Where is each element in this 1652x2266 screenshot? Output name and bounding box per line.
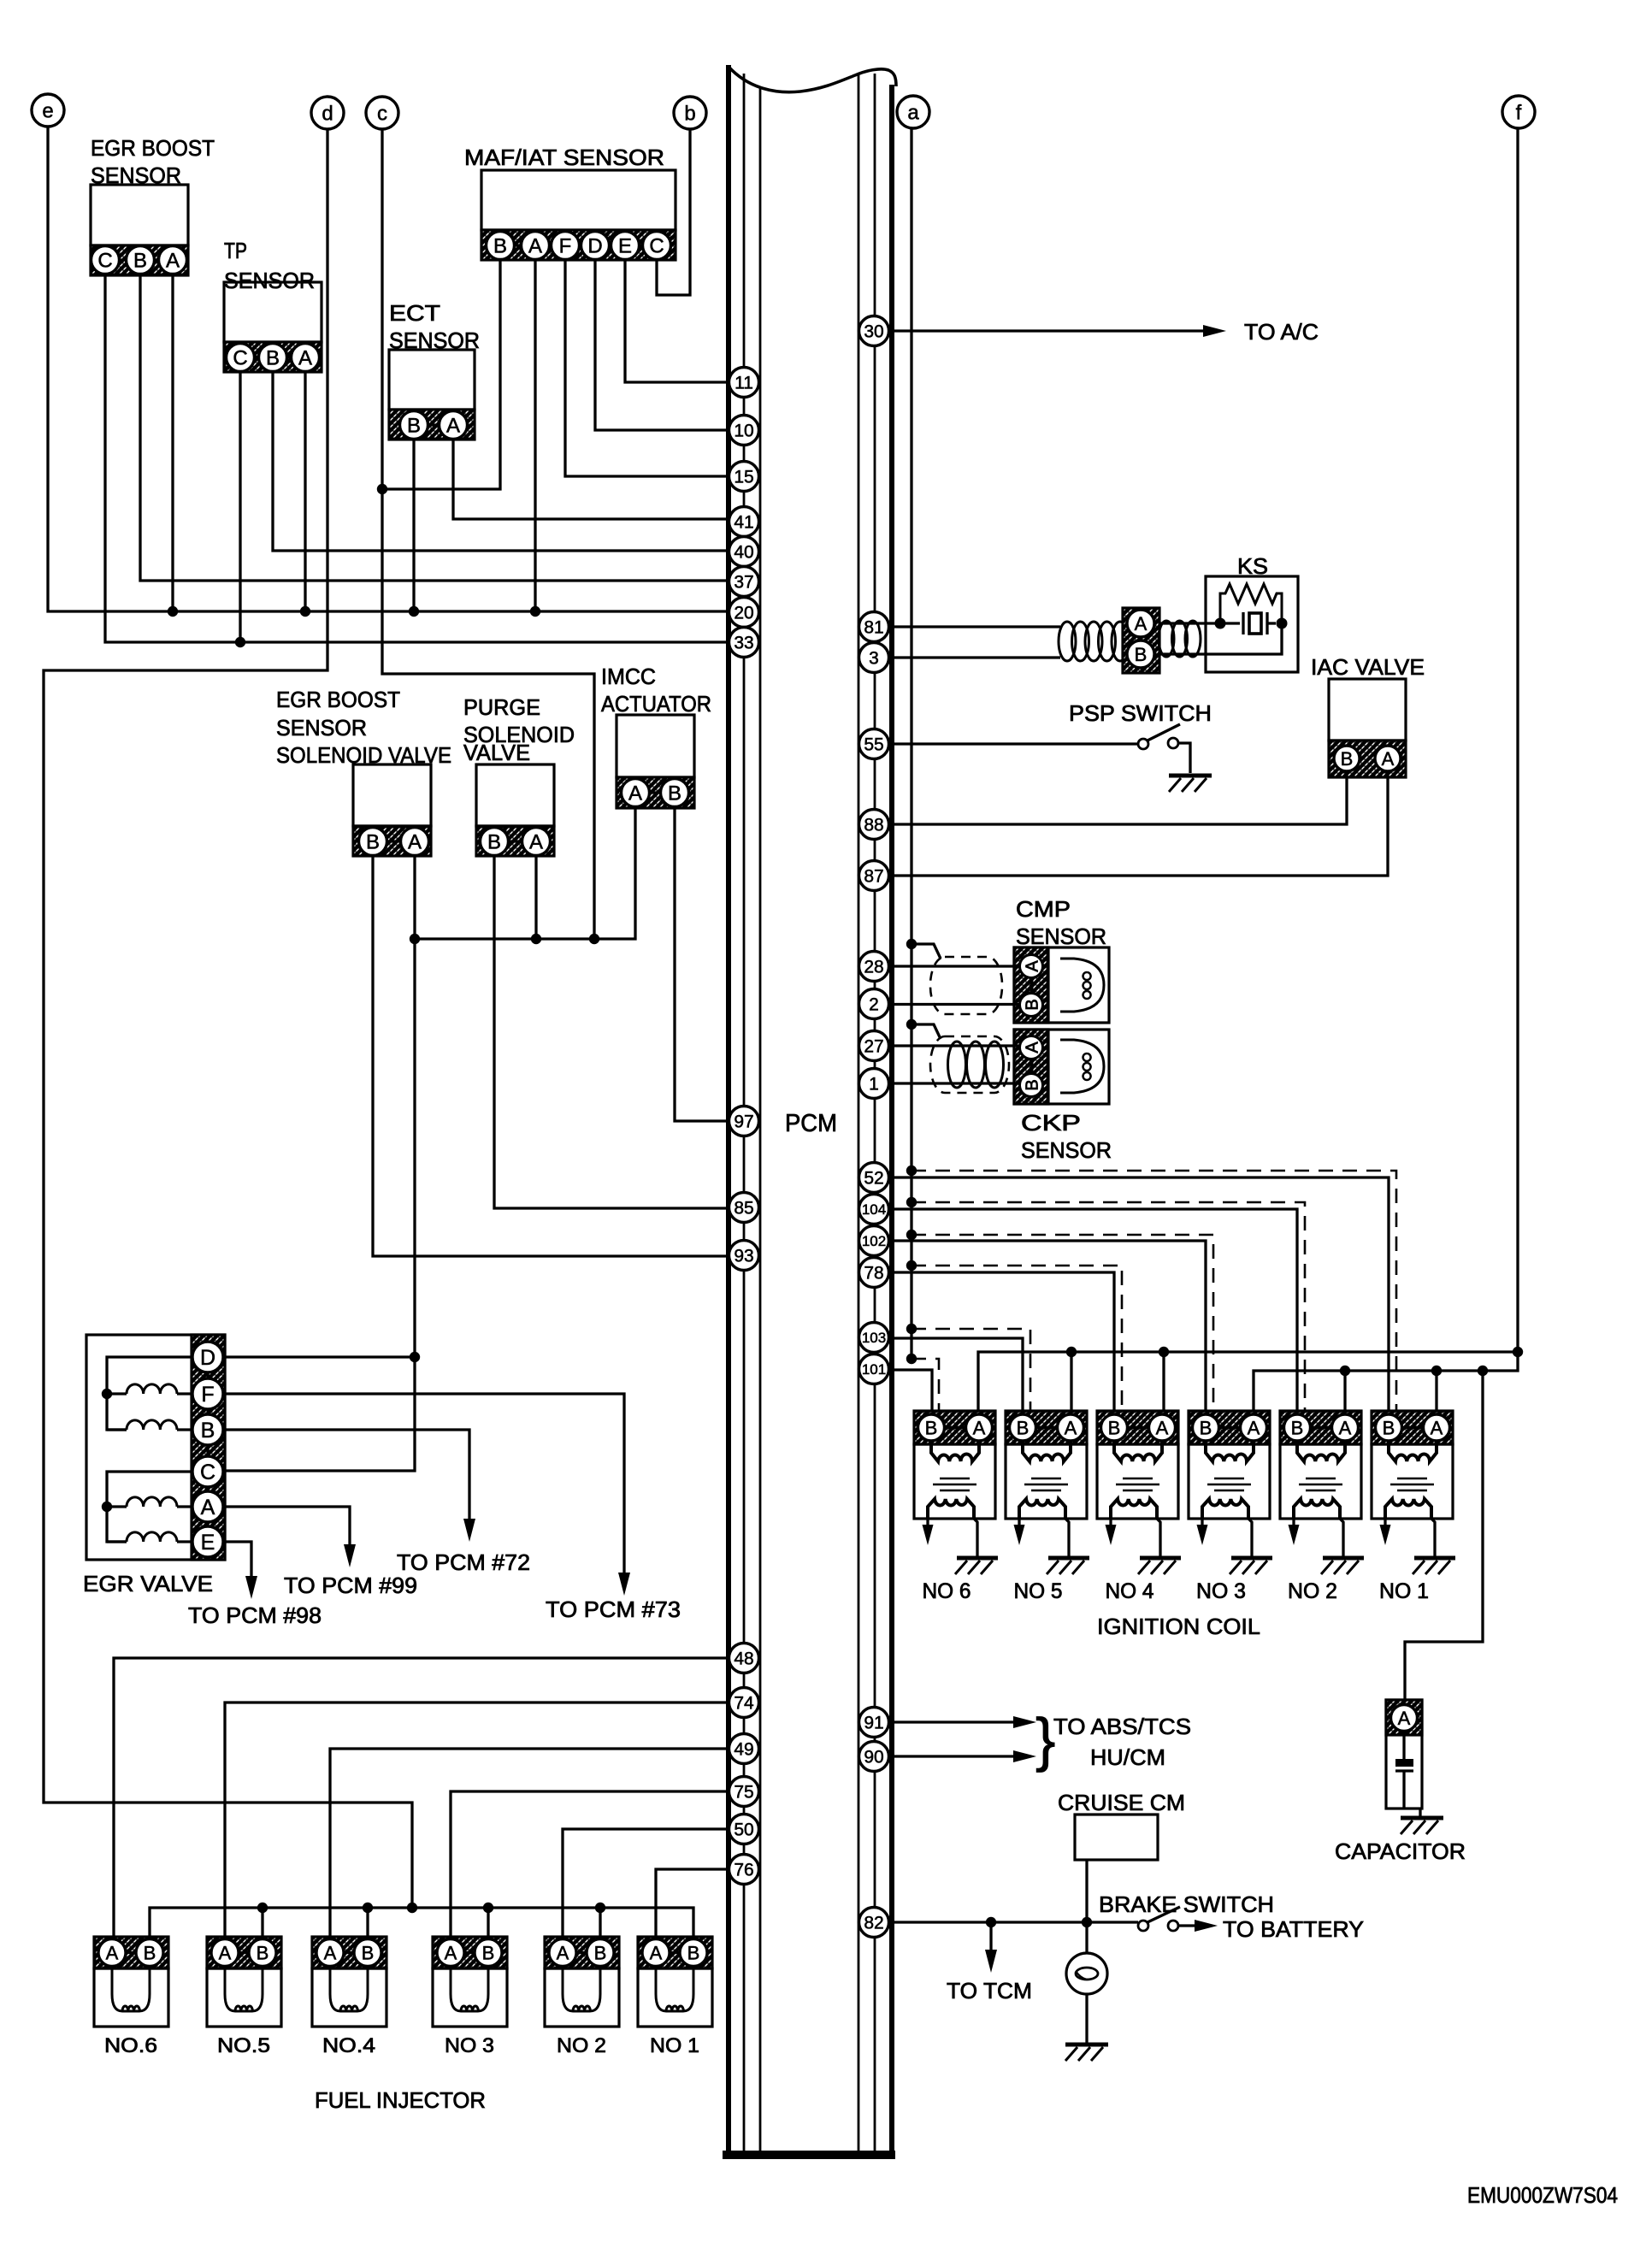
IAC valve pin B	[1334, 746, 1360, 771]
svg-text:CMP: CMP	[1016, 896, 1071, 922]
TP SENSOR pin B	[259, 344, 287, 372]
ignition coil NO 4 body	[1097, 1444, 1178, 1519]
fuel injector NO.6 pin A	[98, 1939, 126, 1967]
svg-text:A: A	[973, 1417, 986, 1438]
fuel injector NO 1 body	[638, 1968, 712, 2027]
wire PCM pin 75 to injector NO 3 A	[451, 1791, 729, 1937]
CMP pickup coil	[1060, 959, 1104, 1012]
svg-text:A: A	[628, 782, 642, 805]
capacitor element	[1395, 1732, 1413, 1809]
EGR BOOST SENSOR pin B	[127, 246, 155, 274]
wire PCM pin 49 to injector NO.4 A	[330, 1749, 729, 1937]
svg-text:NO 3: NO 3	[1196, 1579, 1246, 1603]
PCM connector top cable loop	[729, 67, 896, 92]
PCM pin 20	[729, 598, 759, 628]
ignition coil NO 3 pin link	[1206, 1426, 1254, 1429]
shield (dashed) for pin 78 circuit	[912, 1266, 1122, 1411]
ignition coil NO 4 pin link	[1114, 1426, 1162, 1429]
wire purge solenoid B to PCM pin 85	[494, 855, 729, 1209]
ignition coil NO 4 pin A	[1149, 1414, 1176, 1441]
svg-text:B: B	[407, 415, 421, 438]
fuel injector NO.5 body	[207, 1968, 281, 2027]
EGR boost solenoid body	[353, 764, 431, 826]
ignition coil NO 6 secondary winding	[928, 1499, 974, 1519]
svg-text:C: C	[233, 347, 247, 370]
IMCC actuator pin B	[661, 779, 689, 807]
svg-text:B: B	[1108, 1417, 1121, 1438]
ignition coil NO 3 body	[1189, 1444, 1270, 1519]
CKP sensor pin B	[1020, 1074, 1043, 1097]
ignition coil NO 6 primary winding	[931, 1441, 979, 1461]
svg-text:TP: TP	[224, 238, 247, 263]
wire PCM pin 82 to brake switch	[894, 1921, 1138, 1923]
purge solenoid connector strip	[476, 826, 554, 856]
connector circle b	[674, 97, 706, 129]
CMP sensor pin B	[1020, 994, 1043, 1017]
svg-text:F: F	[559, 235, 572, 258]
wire PCM pin 91 to ABS/TCS	[894, 1720, 1015, 1723]
ignition coil NO 6 core	[933, 1478, 976, 1490]
svg-text:82: 82	[864, 1914, 883, 1933]
svg-text:NO 6: NO 6	[923, 1579, 971, 1603]
wire ECT B to ground bus	[412, 440, 415, 612]
svg-text:B: B	[687, 1942, 700, 1963]
svg-text:A: A	[528, 235, 542, 258]
svg-text:A: A	[1248, 1417, 1260, 1438]
ECT sensor pin link	[414, 423, 453, 426]
PCM pin 11	[729, 368, 759, 398]
fuel injector NO 1 pin A	[642, 1939, 670, 1967]
KS box	[1206, 576, 1298, 672]
EGR VALVE pin A	[192, 1491, 223, 1522]
wire EGR valve F to PCM #73	[223, 1394, 624, 1573]
PSP switch ground	[1169, 776, 1212, 792]
shield (dashed) for pin 102 circuit	[912, 1235, 1213, 1411]
svg-text:55: 55	[864, 735, 883, 755]
connector circle d	[311, 97, 344, 129]
TP SENSOR body	[224, 282, 322, 342]
EGR VALVE coil 3 (A)	[107, 1497, 192, 1507]
EGR BOOST SENSOR connector strip	[91, 245, 188, 275]
svg-text:C: C	[97, 250, 112, 273]
ignition coil NO 5 HT output arrow	[1014, 1519, 1025, 1545]
ignition coil NO 5 ground	[1047, 1558, 1089, 1574]
PCM pin 55	[859, 729, 889, 759]
ignition coil NO 1 connector strip	[1372, 1411, 1453, 1444]
junction c line on supply line	[589, 934, 599, 944]
svg-text:B: B	[1135, 644, 1148, 665]
svg-text:EGR BOOST: EGR BOOST	[91, 135, 215, 161]
brake switch contact left	[1138, 1921, 1148, 1931]
PCM pin 91	[859, 1708, 889, 1738]
wire TP A to ground bus	[304, 372, 306, 612]
svg-text:A: A	[408, 831, 422, 854]
PCM pin 78	[859, 1258, 889, 1288]
EGR VALVE lower common wire (C to A/E coils)	[107, 1472, 192, 1542]
EGR BOOST SENSOR body	[91, 185, 188, 245]
TP SENSOR connector strip	[224, 342, 322, 372]
svg-text:40: 40	[734, 543, 753, 563]
PCM connector left rail	[729, 65, 760, 2153]
wire EGR boost sensor C to PCM pin 33	[105, 274, 729, 643]
PCM connector right rail	[858, 74, 892, 2153]
cruise lamp ground	[1065, 2045, 1108, 2061]
ECT SENSOR pin A	[440, 411, 468, 440]
fuel injector NO 3 body	[433, 1968, 507, 2027]
arrow TO PCM #72	[463, 1519, 475, 1542]
purge solenoid body	[476, 764, 554, 826]
svg-text:93: 93	[734, 1247, 753, 1266]
PCM pin 101	[859, 1354, 889, 1384]
wire PCM pin 27 to CKP A	[894, 1044, 1020, 1047]
wire PCM pin 3 to KS connector B	[894, 656, 1060, 658]
svg-text:FUEL INJECTOR: FUEL INJECTOR	[315, 2087, 486, 2113]
svg-text:B: B	[201, 1419, 215, 1443]
svg-text:103: 103	[862, 1330, 886, 1346]
svg-text:NO.6: NO.6	[104, 2034, 157, 2057]
fuel injector NO.6 pin B	[136, 1939, 163, 1967]
wire PCM pin 81 to KS connector A	[894, 625, 1060, 628]
PSP switch contact right	[1168, 738, 1178, 748]
svg-text:76: 76	[734, 1861, 753, 1880]
svg-text:A: A	[1135, 613, 1148, 634]
wire PCM pin 48 to injector NO.6 A	[114, 1658, 729, 1937]
drop lower bus to NO 2 A	[1343, 1371, 1346, 1411]
ignition coil NO 4 secondary winding	[1111, 1499, 1157, 1519]
connector circle e	[32, 94, 64, 127]
fuel injector NO 1 pin link	[656, 1951, 693, 1954]
svg-text:BRAKE SWITCH: BRAKE SWITCH	[1099, 1891, 1274, 1917]
svg-text:CKP: CKP	[1021, 1110, 1081, 1136]
ignition coil NO 2 ground wire	[1340, 1519, 1343, 1556]
ignition coil NO 5 connector strip	[1006, 1411, 1087, 1444]
CMP cable shield (dashed)	[930, 957, 1002, 1014]
wire PCM pin 103 to ignition coil NO 5 B	[894, 1338, 1023, 1411]
svg-text:104: 104	[862, 1201, 886, 1218]
wire PCM pin 50 to injector NO 2 A	[563, 1829, 729, 1937]
wire MAF A to ground bus	[534, 259, 536, 611]
fuel injector NO 3 connector strip	[433, 1937, 507, 1968]
EGR boost solenoid pin A	[401, 828, 429, 856]
svg-text:SENSOR: SENSOR	[1021, 1137, 1112, 1163]
svg-text:B: B	[493, 235, 507, 258]
EGR boost solenoid connector strip	[353, 826, 431, 856]
IAC valve pin A	[1375, 746, 1401, 771]
svg-text:NO 4: NO 4	[1106, 1579, 1154, 1603]
IAC valve connector strip	[1329, 741, 1406, 777]
junction cruise lamp branch	[1082, 1917, 1092, 1927]
PCM pin 81	[859, 612, 889, 642]
svg-text:e: e	[42, 100, 53, 123]
TP SENSOR label	[224, 238, 315, 293]
PCM pin 87	[859, 861, 889, 891]
CKP cable shield (dashed)	[930, 1036, 1009, 1093]
wire EGR valve E to PCM #98	[223, 1542, 251, 1577]
PCM pin 102	[859, 1226, 889, 1256]
cruise lamp ground wire	[1085, 1994, 1088, 2044]
svg-text:B: B	[1383, 1417, 1395, 1438]
KS connector strip	[1123, 608, 1159, 673]
wire EGR boost solenoid B to PCM pin 93	[373, 855, 729, 1257]
svg-text:1: 1	[869, 1075, 879, 1095]
junction CKP drain on a line	[906, 1019, 917, 1030]
CKP sensor body	[1014, 1030, 1109, 1104]
svg-text:c: c	[377, 103, 387, 126]
ignition coil NO 2 body	[1280, 1444, 1361, 1519]
svg-text:ECT: ECT	[389, 300, 440, 326]
CMP sensor connector strip	[1014, 947, 1048, 1023]
ignition coil NO 2 pin A	[1332, 1414, 1359, 1441]
ignition coil NO 2 secondary winding	[1294, 1499, 1340, 1519]
fuel injector NO.4 pin link	[330, 1951, 368, 1954]
ignition coil NO 5 pin link	[1023, 1426, 1071, 1429]
KS connector pin A	[1127, 610, 1154, 637]
ignition coil NO 4 primary winding	[1114, 1441, 1162, 1461]
PCM pin 97	[729, 1106, 759, 1136]
PCM pin 104	[859, 1195, 889, 1224]
wire f to ignition coil supply bus	[1516, 127, 1519, 1353]
EGR VALVE pin F	[192, 1378, 223, 1409]
ignition coil NO 3 ground	[1230, 1558, 1272, 1574]
KS parallel resistor	[1220, 584, 1282, 623]
wire EGR valve D to supply junction	[223, 1355, 415, 1358]
ignition coil NO 1 body	[1372, 1444, 1453, 1519]
MAF/IAT SENSOR connector strip	[481, 230, 676, 260]
svg-text:NO 3: NO 3	[445, 2034, 494, 2057]
ECT SENSOR connector strip	[389, 410, 475, 440]
ignition coil NO 6 connector strip	[914, 1411, 995, 1444]
svg-text:NO.4: NO.4	[322, 2034, 375, 2057]
svg-text:B: B	[257, 1942, 269, 1963]
fuel injector NO 1 pin B	[680, 1939, 707, 1967]
junction capacitor feed on lower bus	[1478, 1366, 1488, 1376]
fuel injector NO.4 coil	[330, 1968, 368, 2011]
EGR VALVE connector strip	[192, 1335, 225, 1560]
ignition coil NO 5 core	[1024, 1478, 1068, 1490]
wire EGR boost sensor B to PCM pin 37	[140, 274, 729, 581]
wire IMCC B to PCM pin 97	[675, 808, 729, 1122]
junction supply line on EGR valve D wire	[410, 1352, 420, 1362]
wire PCM pin 76 to injector NO 1 A	[656, 1869, 729, 1937]
junction TP A on pin20 bus	[300, 606, 310, 617]
junction shield 104 on a line	[906, 1197, 917, 1207]
svg-text:NO 2: NO 2	[557, 2034, 606, 2057]
PCM pin 37	[729, 567, 759, 597]
EGR BOOST SENSOR pin A	[159, 246, 187, 274]
ignition coil NO 1 core	[1390, 1478, 1434, 1490]
wire EGR valve B to PCM #72	[223, 1430, 469, 1520]
CMP shield drain from a line	[912, 944, 941, 959]
MAF/IAT SENSOR pin F	[552, 232, 580, 260]
ignition coil NO 6 pin B	[918, 1414, 945, 1441]
CKP pin link	[1030, 1047, 1032, 1085]
svg-text:TO ABS/TCS: TO ABS/TCS	[1053, 1714, 1191, 1739]
connector circle a	[897, 96, 929, 128]
brake switch contact right	[1168, 1921, 1178, 1931]
PCM pin 3	[859, 643, 889, 673]
EGR VALVE body	[86, 1335, 225, 1560]
capacitor connector square	[1386, 1700, 1422, 1735]
TO ABS/TCS HU/CM label	[1053, 1714, 1191, 1770]
svg-text:B: B	[594, 1942, 607, 1963]
svg-text:A: A	[219, 1942, 232, 1963]
shield (dashed) for pin 104 circuit	[912, 1202, 1305, 1411]
ignition coil NO 1 pin B	[1376, 1414, 1402, 1441]
svg-text:TO BATTERY: TO BATTERY	[1223, 1916, 1364, 1942]
wire a shield ground bus	[910, 127, 912, 1360]
junction EGR boost solenoid A on supply line	[410, 934, 420, 944]
ignition coil NO 1 secondary winding	[1385, 1499, 1431, 1519]
EGR VALVE pin C	[192, 1456, 223, 1487]
ignition coil NO 5 primary winding	[1023, 1441, 1071, 1461]
arrow 91 to ABS/TCS	[1013, 1716, 1036, 1728]
IMCC actuator pin A	[622, 779, 650, 807]
junction shield 103 on a line	[906, 1324, 917, 1334]
arrow TO BATTERY	[1195, 1920, 1218, 1932]
svg-text:A: A	[650, 1942, 663, 1963]
svg-text:15: 15	[734, 468, 753, 487]
CMP SENSOR label	[1016, 896, 1106, 949]
ignition coil NO 3 pin A	[1241, 1414, 1267, 1441]
svg-text:B: B	[1341, 748, 1354, 770]
svg-text:81: 81	[864, 618, 883, 638]
svg-text:78: 78	[864, 1264, 883, 1283]
svg-text:}: }	[1035, 1706, 1055, 1773]
ignition coil NO 2 HT output arrow	[1289, 1519, 1300, 1545]
svg-text:101: 101	[862, 1361, 886, 1378]
junction purge solenoid A on supply line	[531, 934, 541, 944]
svg-text:a: a	[907, 102, 919, 125]
fuel injector NO.6 connector strip	[94, 1937, 168, 1968]
svg-text:A: A	[201, 1496, 215, 1520]
svg-text:B: B	[487, 831, 501, 854]
arrow TO PCM #99	[344, 1544, 356, 1567]
svg-text:30: 30	[864, 322, 883, 342]
svg-text:87: 87	[864, 867, 883, 887]
svg-text:TO PCM #98: TO PCM #98	[188, 1602, 322, 1628]
PCM pin 30	[859, 316, 889, 346]
junction NO 4 A on upper bus	[1159, 1347, 1169, 1357]
svg-text:A: A	[1065, 1417, 1077, 1438]
junction shield 101 on a line	[906, 1354, 917, 1364]
ignition coil NO 5 pin A	[1058, 1414, 1084, 1441]
svg-text:20: 20	[734, 604, 753, 623]
svg-text:f: f	[1516, 102, 1522, 125]
ignition coil NO 6 ground wire	[974, 1519, 977, 1556]
svg-text:A: A	[446, 415, 460, 438]
ignition coil NO 2 ground	[1321, 1558, 1364, 1574]
fuel injector NO 2 body	[545, 1968, 619, 2027]
junction NO 2 A on lower bus	[1340, 1366, 1350, 1376]
svg-text:A: A	[324, 1942, 337, 1963]
wire PCM pin 52 to ignition coil NO 1 B	[894, 1177, 1389, 1411]
twisted pair left of KS connector	[1059, 622, 1129, 661]
wire EGR valve A to PCM #99	[223, 1507, 350, 1545]
ignition coil NO 2 primary winding	[1297, 1441, 1345, 1461]
svg-text:50: 50	[734, 1820, 753, 1840]
arrow 90 to ABS/TCS	[1013, 1750, 1036, 1762]
wire PCM pin 30 to A/C	[894, 329, 1205, 332]
wire PCM pin 102 to ignition coil NO 3 B	[894, 1241, 1206, 1411]
EGR VALVE pin B	[192, 1414, 223, 1445]
PCM pin 85	[729, 1193, 759, 1223]
svg-text:NO 1: NO 1	[650, 2034, 699, 2057]
svg-text:TO A/C: TO A/C	[1244, 319, 1319, 345]
junction TO TCM branch	[986, 1917, 996, 1927]
svg-text:41: 41	[734, 513, 753, 533]
ignition coil NO 1 ground	[1413, 1558, 1455, 1574]
CKP twisted pair	[948, 1042, 1004, 1088]
MAF/IAT SENSOR pin B	[487, 232, 515, 260]
TP sensor pin link	[240, 356, 305, 358]
KS connector pin B	[1127, 640, 1154, 668]
svg-text:HU/CM: HU/CM	[1090, 1744, 1165, 1770]
PCM pin 15	[729, 462, 759, 492]
svg-text:IAC VALVE: IAC VALVE	[1311, 654, 1425, 680]
EGR boost solenoid pin B	[359, 828, 387, 856]
CKP sensor pin A	[1020, 1036, 1043, 1059]
fuel injector NO 3 pin A	[437, 1939, 464, 1967]
svg-text:B: B	[925, 1417, 938, 1438]
wire PCM pin 78 to ignition coil NO 4 B	[894, 1272, 1114, 1411]
IAC valve body	[1329, 679, 1406, 741]
svg-text:33: 33	[734, 634, 753, 653]
ignition coil NO 2 pin B	[1284, 1414, 1311, 1441]
KS internal node left	[1215, 618, 1226, 629]
purge solenoid pin B	[481, 828, 509, 856]
junction f line on upper bus	[1513, 1347, 1523, 1357]
wire IAC A to PCM pin 87	[894, 771, 1388, 876]
svg-text:28: 28	[864, 958, 883, 977]
svg-text:2: 2	[869, 995, 879, 1015]
junction shield 52 on a line	[906, 1165, 917, 1176]
PCM pin 28	[859, 952, 889, 982]
wire brake switch to battery	[1178, 1924, 1196, 1927]
ignition coil NO 5 pin B	[1010, 1414, 1036, 1441]
junction F coil on D common	[102, 1389, 112, 1399]
CKP shield drain from a line	[912, 1024, 941, 1039]
ignition coil NO 3 connector strip	[1189, 1411, 1270, 1444]
PCM pin 40	[729, 537, 759, 567]
PCM pin 88	[859, 810, 889, 840]
ignition coil NO 3 HT output arrow	[1197, 1519, 1208, 1545]
svg-text:PSP SWITCH: PSP SWITCH	[1069, 700, 1212, 726]
ignition coil NO 6 body	[914, 1444, 995, 1519]
capacitor ground	[1401, 1818, 1443, 1834]
PCM connector bottom bar	[723, 2151, 895, 2159]
svg-text:A: A	[557, 1942, 569, 1963]
junction NO 5 A on upper bus	[1066, 1347, 1077, 1357]
PCM pin 74	[729, 1688, 759, 1718]
PCM pin 48	[729, 1643, 759, 1673]
IMCC ACTUATOR label	[601, 664, 711, 717]
PCM pin 103	[859, 1323, 889, 1353]
svg-text:TO PCM #99: TO PCM #99	[284, 1573, 417, 1598]
ignition coil NO 1 HT output arrow	[1380, 1519, 1391, 1545]
junction MAF B on c line	[377, 484, 387, 494]
fuel injector NO 2 pin A	[549, 1939, 576, 1967]
PCM pin 93	[729, 1241, 759, 1271]
svg-text:EGR BOOST: EGR BOOST	[276, 687, 400, 712]
arrow TO PCM #73	[618, 1573, 630, 1596]
IMCC actuator pin link	[635, 791, 675, 794]
fuel injector NO 3 coil	[451, 1968, 488, 2011]
svg-text:10: 10	[734, 422, 753, 441]
wire TP B to PCM pin 40	[273, 372, 729, 552]
EGR boost solenoid pin link	[373, 840, 415, 842]
fuel injector NO.5 connector strip	[207, 1937, 281, 1968]
wire PCM pin 55 to PSP switch	[894, 742, 1138, 745]
